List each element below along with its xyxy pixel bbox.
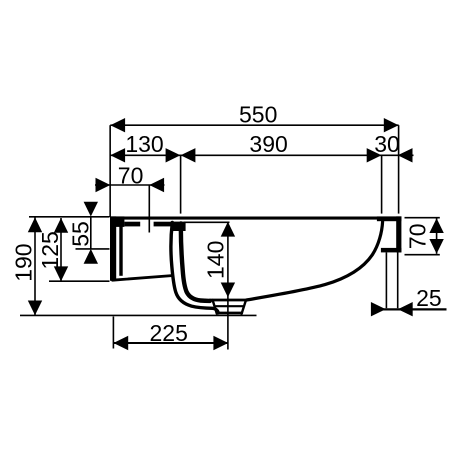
svg-text:550: 550 xyxy=(239,101,277,127)
svg-text:130: 130 xyxy=(125,131,163,157)
svg-text:225: 225 xyxy=(150,320,188,346)
svg-text:55: 55 xyxy=(68,221,94,247)
svg-text:70: 70 xyxy=(405,224,431,250)
svg-text:70: 70 xyxy=(118,162,144,188)
svg-text:25: 25 xyxy=(416,285,442,311)
svg-text:30: 30 xyxy=(374,131,400,157)
svg-text:140: 140 xyxy=(202,241,228,279)
svg-text:125: 125 xyxy=(37,231,63,269)
svg-text:390: 390 xyxy=(249,131,287,157)
svg-text:190: 190 xyxy=(11,243,37,281)
